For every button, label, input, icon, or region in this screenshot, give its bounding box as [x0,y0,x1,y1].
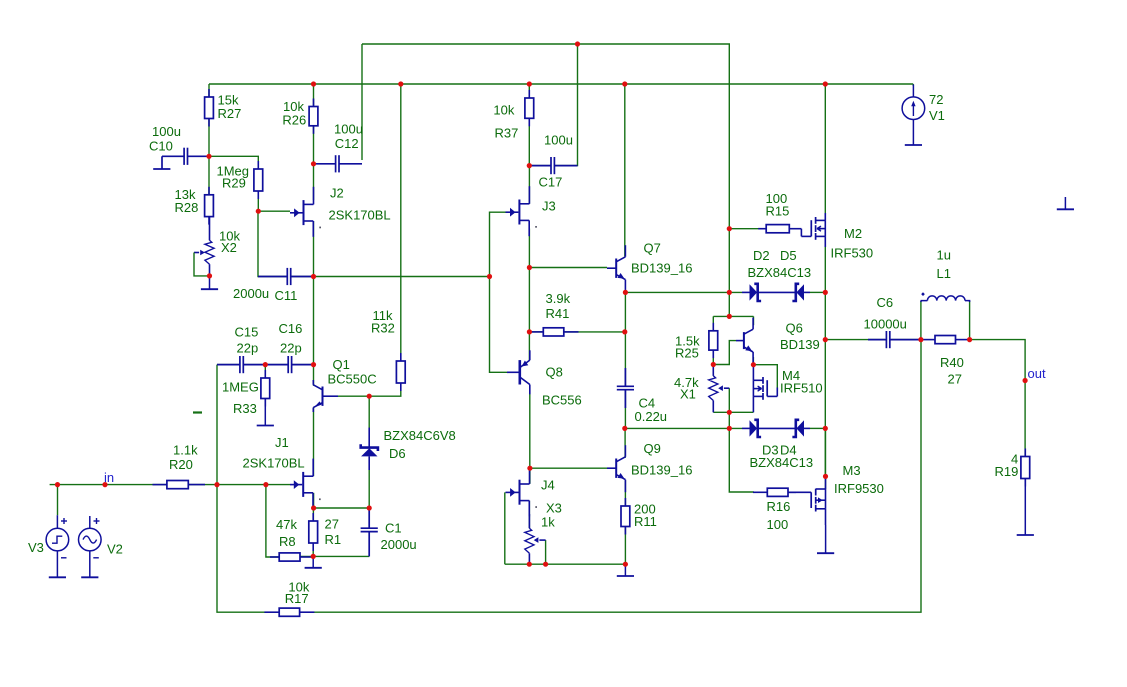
svg-text:1k: 1k [541,515,555,530]
wire [313,493,315,508]
node in [104,470,114,485]
ground [257,399,274,426]
svg-text:100u: 100u [544,133,573,148]
resistor R27 [205,89,242,127]
MOSFET M3 (IRF9530) [788,463,884,525]
junction [527,81,532,86]
wire [312,508,314,521]
wire [313,84,315,106]
wire [300,340,921,613]
svg-text:27: 27 [948,372,962,387]
JFET J2 (2SK170BL) [290,186,391,237]
svg-text:Q8: Q8 [546,365,563,380]
svg-text:BD139: BD139 [780,337,820,352]
svg-text:M3: M3 [843,463,861,478]
ground [49,576,66,578]
voltage source V3 [28,515,69,577]
svg-text:BZX84C13: BZX84C13 [748,265,812,280]
resistor R41 [531,291,579,336]
svg-text:D5: D5 [780,248,797,263]
wire [400,84,402,361]
junction [527,329,532,334]
svg-text:V3: V3 [28,540,44,555]
resistor R19 [995,449,1030,487]
junction [367,394,372,399]
svg-text:R20: R20 [169,457,193,472]
wire [313,221,315,386]
svg-text:D6: D6 [389,446,406,461]
junction [823,426,828,431]
junction [1023,378,1028,383]
wire [529,331,542,333]
svg-text:J4: J4 [541,478,555,493]
junction [823,337,828,342]
svg-text:1.1k: 1.1k [173,443,198,458]
ground [201,276,218,289]
svg-text:2000u: 2000u [381,537,417,552]
wire [825,339,884,341]
svg-text:R26: R26 [282,113,306,128]
ground [305,556,322,567]
wire [713,411,753,413]
wire [824,246,826,292]
ground (floating) [1057,197,1074,209]
junction [311,274,316,279]
wire [969,301,971,340]
svg-text:Q1: Q1 [333,357,350,372]
wire [545,540,547,564]
svg-text:C15: C15 [235,325,259,340]
svg-text:2000u: 2000u [233,286,269,301]
diode D6 (zener BZX84C6V8) [361,428,456,470]
junction [527,265,532,270]
junction [575,41,580,46]
junction [487,274,492,279]
junction [55,482,60,487]
wire [505,563,626,565]
svg-text:R25: R25 [675,346,699,361]
wire [753,316,755,325]
wire [338,383,401,396]
wire [368,535,370,556]
resistor R28 [175,187,214,225]
junction [622,329,627,334]
junction [727,226,732,231]
resistor R1 [309,513,341,551]
junction [398,81,403,86]
junction [311,81,316,86]
junction [623,290,628,295]
junction [311,505,316,510]
wire [624,480,626,506]
ground [817,525,834,553]
wire [188,484,290,486]
wire [266,485,279,557]
svg-text:IRF9530: IRF9530 [834,481,884,496]
junction [918,337,923,342]
svg-text:BC556: BC556 [542,393,582,408]
wire [529,385,531,469]
svg-text:X3: X3 [546,501,562,516]
transistor Q6 (BD139) [736,318,820,365]
svg-text:3.9k: 3.9k [546,291,571,306]
svg-text:D2: D2 [753,248,770,263]
svg-text:47k: 47k [276,517,297,532]
svg-text:BD139_16: BD139_16 [631,261,692,276]
resistor R16 [753,488,796,532]
junction [727,410,732,415]
svg-text:2SK170BL: 2SK170BL [243,456,305,471]
wire [624,428,626,458]
wire [970,340,1026,457]
junction [527,562,532,567]
potentiometer X2 (10k) [194,217,240,276]
potentiometer X3 (1k) [525,501,562,565]
wire [712,316,714,330]
resistor R20 [153,443,206,489]
wire [624,292,626,386]
svg-text:V1: V1 [929,108,945,123]
wire [528,84,530,98]
capacitor C11 [233,268,314,303]
junction [622,426,627,431]
svg-text:BC550C: BC550C [328,372,377,387]
wire [208,84,210,97]
wire [528,166,530,204]
wire [50,484,167,486]
wire [528,119,530,166]
resistor R17 [264,580,314,617]
wire [920,301,922,340]
svg-text:100: 100 [767,517,789,532]
wire [312,543,314,556]
wire [217,364,240,366]
svg-text:100u: 100u [334,121,363,136]
svg-text:Q7: Q7 [644,241,661,256]
junction [727,426,732,431]
ground [905,144,922,146]
svg-text:R1: R1 [325,532,342,547]
svg-text:BZX84C13: BZX84C13 [750,455,814,470]
svg-text:C17: C17 [539,175,563,190]
junction [543,562,548,567]
svg-text:C1: C1 [385,521,402,536]
wire [504,492,506,564]
wire [313,407,315,476]
MOSFET M2 (IRF530) [801,213,873,261]
junction [214,482,219,487]
resistor R26 [282,99,318,134]
svg-text:IRF530: IRF530 [831,246,874,261]
svg-text:V2: V2 [107,542,123,557]
svg-text:R15: R15 [766,204,790,219]
MOSFET M4 (IRF510) [753,365,822,413]
transistor Q7 (BD139_16) [607,241,692,293]
svg-text:Q6: Q6 [786,321,803,336]
wire [529,468,531,484]
wire [530,467,607,469]
diode D4 (zener BZX84C13) [750,420,814,470]
wire [208,119,210,195]
svg-text:C6: C6 [877,295,894,310]
junction [311,554,316,559]
JFET J1 (2SK170BL) [243,435,321,509]
junction [102,482,107,487]
svg-text:J3: J3 [542,198,556,213]
wire [368,396,370,444]
resistor R32 [371,308,405,391]
wire [528,229,530,361]
svg-text:R27: R27 [218,106,242,121]
capacitor C1 [361,508,417,556]
wire [209,156,258,169]
junction [527,163,532,168]
svg-text:C12: C12 [335,136,359,151]
voltage source V2 [79,516,123,577]
wire [217,365,279,613]
wire [292,364,314,366]
wire [314,507,370,509]
wire [300,555,369,557]
junction [207,273,212,278]
svg-text:R40: R40 [940,355,964,370]
svg-text:J1: J1 [275,435,289,450]
resistor R29 [217,161,263,199]
svg-text:out: out [1028,366,1046,381]
svg-text:27: 27 [325,517,339,532]
svg-text:C16: C16 [279,321,303,336]
junction [622,81,627,86]
svg-text:M2: M2 [844,226,862,241]
svg-text:R29: R29 [222,176,246,191]
junction [727,290,732,295]
wire [825,428,827,489]
wire [243,364,288,366]
junction [367,505,372,510]
wire [728,388,730,412]
transistor Q1 (BC550C) [313,357,376,412]
svg-text:72: 72 [929,92,943,107]
resistor R15 [758,191,801,233]
wire [257,191,259,211]
inductor L1 [921,248,970,303]
wire [625,427,742,429]
JFET J4 [506,466,555,516]
junction [623,562,628,567]
wire [713,341,736,365]
diode D5 (zener BZX84C13) [748,248,812,301]
junction [711,362,716,367]
wire [368,456,370,508]
wire [729,228,766,230]
ground [81,576,98,578]
ground [1017,479,1034,536]
svg-text:1MEG: 1MEG [222,380,259,395]
junction [527,466,532,471]
wire [258,211,287,276]
wire [528,501,530,529]
capacitor C16 [265,321,313,373]
svg-text:R37: R37 [495,125,519,140]
wire [824,84,826,214]
svg-text:IRF510: IRF510 [780,381,823,396]
capacitor C12 [314,121,363,172]
svg-text:Q9: Q9 [644,441,661,456]
svg-text:X1: X1 [680,387,696,402]
resistor R40 [921,336,970,387]
wire [624,390,626,428]
wire [729,412,754,492]
resistor R37 [493,90,533,140]
wire [810,427,825,429]
junction [206,154,211,159]
svg-text:0.22u: 0.22u [635,409,668,424]
svg-text:R33: R33 [233,401,257,416]
wire [625,291,742,293]
resistor R33 [222,370,270,416]
junction [823,81,828,86]
wire [713,315,753,317]
wire [891,339,921,341]
wire [258,210,290,212]
junction [751,362,756,367]
resistor R11 [621,498,657,535]
svg-text:1u: 1u [937,248,951,263]
source V1 (72) [902,85,945,145]
transistor Q9 (BD139_16) [607,441,692,492]
wire [810,291,825,293]
svg-text:BD139_16: BD139_16 [631,463,692,478]
wire [824,292,826,476]
dash mark [193,411,202,413]
svg-text:R8: R8 [279,534,296,549]
wire [564,331,625,333]
wire [712,365,714,376]
junction [967,337,972,342]
wire [490,212,508,372]
svg-text:C10: C10 [149,139,173,154]
wire [753,365,777,388]
JFET J3 (2SK170BL) [506,186,556,236]
capacitor C17 [529,133,577,190]
wire [752,357,754,365]
wire [624,84,626,256]
wire [264,365,266,378]
junction [263,362,268,367]
transistor Q8 (BC556) [507,350,582,407]
ground [617,564,634,576]
diode D2 (zener BZX84C13) [742,248,796,301]
svg-text:2SK170BL: 2SK170BL [329,208,391,223]
capacitor C15 [217,325,265,374]
resistor R8 [270,517,313,561]
ground [153,168,170,170]
wire [368,508,370,526]
junction [823,290,828,295]
wire [912,84,914,86]
capacitor C6 [864,295,921,348]
svg-text:22p: 22p [237,341,259,356]
diode D3 (zener BZX84C13) [742,420,796,458]
capacitor C10 [149,124,209,169]
svg-text:22p: 22p [280,341,302,356]
svg-text:R28: R28 [175,200,199,215]
wire [529,267,607,269]
svg-text:L1: L1 [937,266,951,281]
wire [554,44,577,166]
svg-text:C11: C11 [275,288,298,303]
wire [313,164,315,200]
junction [311,362,316,367]
capacitor C4 [617,368,667,424]
svg-text:10000u: 10000u [864,317,907,332]
svg-text:R19: R19 [995,464,1019,479]
svg-text:R11: R11 [634,514,657,529]
junction [823,474,828,479]
junction [311,161,316,166]
wire [57,485,59,516]
svg-text:X2: X2 [221,240,237,255]
svg-text:J2: J2 [330,186,344,201]
wire [624,527,626,565]
wire [313,126,315,164]
resistor R25 [675,323,718,361]
svg-text:R41: R41 [546,306,570,321]
wire [712,350,714,364]
junction [256,209,261,214]
svg-text:R32: R32 [371,321,395,336]
wire [361,44,363,160]
svg-text:10k: 10k [493,103,514,118]
potentiometer X1 (4.7k) [674,365,729,413]
svg-text:R17: R17 [285,591,309,606]
wire [291,276,490,278]
junction [727,314,732,319]
wire [209,83,913,85]
junction [263,482,268,487]
svg-text:BZX84C6V8: BZX84C6V8 [384,428,456,443]
node out [1028,366,1046,381]
wire [362,44,729,316]
wire [529,165,551,167]
svg-text:R16: R16 [767,499,791,514]
svg-text:100u: 100u [152,124,181,139]
